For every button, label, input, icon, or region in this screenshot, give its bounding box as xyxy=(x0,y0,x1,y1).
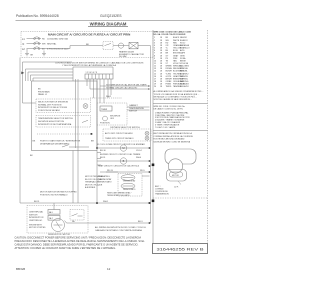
terminal strip wires down xyxy=(87,79,111,148)
svg-text:PANEL L1: PANEL L1 xyxy=(38,93,48,96)
svg-text:POSITION / MOTOR PARADO: POSITION / MOTOR PARADO xyxy=(40,193,68,196)
wire table row 10 xyxy=(154,59,187,62)
indicator lamp L2 xyxy=(145,131,149,135)
svg-text:BK-11: BK-11 xyxy=(34,201,40,203)
wire bundle 5 xyxy=(33,78,73,81)
wire L1 xyxy=(27,38,42,40)
svg-text:TN/RD: TN/RD xyxy=(166,86,172,88)
junction dot row xyxy=(91,133,93,135)
svg-text:SHOWN IN HIGH POSITION: SHOWN IN HIGH POSITION xyxy=(38,121,64,123)
switch contact in sub box xyxy=(72,214,83,216)
svg-text:DE ARRANQUE (MOMENTARY): DE ARRANQUE (MOMENTARY) xyxy=(40,142,70,145)
svg-text:6A 5: 6A 5 xyxy=(49,211,53,214)
svg-text:THERMOSTAT: THERMOSTAT xyxy=(123,180,137,183)
right column separator 2 xyxy=(153,130,208,132)
svg-text:20: 20 xyxy=(154,86,156,88)
wire row 4 xyxy=(20,202,150,204)
junction row1 left xyxy=(96,147,98,149)
terminal strip xyxy=(85,74,113,79)
svg-text:NEUTRAL: NEUTRAL xyxy=(47,43,57,46)
svg-text:NORMAL DRY POSITION: NORMAL DRY POSITION xyxy=(38,103,62,106)
switch contact S2 xyxy=(82,120,88,122)
svg-text:BLANCO: BLANCO xyxy=(180,39,188,42)
motor housing outline xyxy=(167,170,187,182)
svg-text:WH-2: WH-2 xyxy=(106,96,112,98)
right column left border xyxy=(152,30,154,243)
svg-text:CAFE: CAFE xyxy=(180,52,186,55)
heater element circle xyxy=(118,43,123,48)
right column right border xyxy=(207,30,209,243)
svg-text:1/2 P.: 1/2 P. xyxy=(174,186,179,188)
wire table row 18 xyxy=(154,80,189,83)
svg-text:A BORNES: A BORNES xyxy=(85,186,96,189)
junction row3b right xyxy=(149,171,151,173)
wire loop top xyxy=(23,62,73,103)
svg-text:SHOWN WITH: SHOWN WITH xyxy=(29,224,42,226)
svg-text:CAUTION: DISCONNECT POWER BEFO: CAUTION: DISCONNECT POWER BEFORE SERVICI… xyxy=(15,236,142,240)
svg-text:TAN: TAN xyxy=(173,59,177,62)
timer output wire 1 xyxy=(127,106,150,108)
console drop wire 1 xyxy=(72,151,74,204)
svg-text:BU-10: BU-10 xyxy=(100,150,107,152)
svg-text:POSITION: POSITION xyxy=(100,123,110,125)
svg-text:NARANJA: NARANJA xyxy=(180,44,190,47)
wire row 5 xyxy=(67,222,150,224)
svg-text:AZUL/BL: AZUL/BL xyxy=(180,70,188,73)
fuse F1 xyxy=(34,37,40,40)
wire table row 15 xyxy=(154,72,188,75)
svg-text:TERMOSTATO: TERMOSTATO xyxy=(98,181,112,184)
selector switch dashed box xyxy=(36,99,91,113)
motor dashed box xyxy=(27,206,88,234)
svg-text:B: B xyxy=(123,159,125,163)
temperature switch dashed box xyxy=(36,116,91,128)
svg-text:GY-14: GY-14 xyxy=(136,150,142,152)
svg-text:BB/GB: BB/GB xyxy=(16,267,25,271)
svg-text:BUZZER CIRCUIT / CIRCUITO DEL: BUZZER CIRCUIT / CIRCUITO DEL TIMBRE xyxy=(100,154,141,156)
wire table row 16 xyxy=(154,75,189,78)
wire into thermostat box xyxy=(100,171,118,173)
wire table row 1 xyxy=(154,36,187,39)
svg-text:MOTOR SWITCH SHOWN IN STOPPED: MOTOR SWITCH SHOWN IN STOPPED xyxy=(40,192,77,194)
wire row 2 xyxy=(97,160,150,162)
svg-text:GLEQ2152ES: GLEQ2152ES xyxy=(100,14,122,18)
svg-text:ALL WIRING SHOWN WITH DOOR CLO: ALL WIRING SHOWN WITH DOOR CLOSED / TODO… xyxy=(95,226,147,229)
wire bundle 2 xyxy=(26,69,74,81)
wire timer feed 1 xyxy=(100,85,148,87)
thermal limiter box xyxy=(103,42,113,50)
buzzer B1 xyxy=(120,158,126,164)
wire table row 11 xyxy=(154,62,189,65)
right column note 2 xyxy=(154,132,194,143)
svg-text:TERMINAL DEL: TERMINAL DEL xyxy=(85,181,100,184)
svg-text:FROM MAIN: FROM MAIN xyxy=(38,90,50,93)
svg-text:WH-4: WH-4 xyxy=(136,157,142,159)
svg-text:SONT DE CALIBRE 18 SAUF INDICA: SONT DE CALIBRE 18 SAUF INDICATION ... xyxy=(154,98,193,101)
console enclosure xyxy=(32,81,98,151)
svg-text:SELECTOR SWITCH SHOWN IN: SELECTOR SWITCH SHOWN IN xyxy=(38,102,69,104)
dryness switch dashed box xyxy=(103,129,151,141)
svg-text:TERMOSTATO: TERMOSTATO xyxy=(123,188,136,191)
fold mark 1 xyxy=(152,164,155,167)
svg-text:WH-1: WH-1 xyxy=(103,201,109,203)
cabinet top edge xyxy=(73,67,113,81)
svg-text:ATTENTION: COUPER LE COURANT A: ATTENTION: COUPER LE COURANT AVANT DE FA… xyxy=(15,246,117,250)
svg-text:18: 18 xyxy=(160,86,162,88)
svg-text:PUSH TO START SWITCH / INTERRU: PUSH TO START SWITCH / INTERRUPTOR xyxy=(40,140,81,143)
svg-text:WIRE CODE / CODIGO DE CABLE /: WIRE CODE / CODIGO DE CABLE / CODE xyxy=(154,31,192,34)
svg-text:ROSA: ROSA xyxy=(180,57,186,60)
thermostat dashed box xyxy=(118,174,142,197)
svg-text:BLACK: BLACK xyxy=(173,36,180,39)
svg-text:HEAT CIRCUIT / CIRCUITO DE CAL: HEAT CIRCUIT / CIRCUITO DE CALOR RD-6 xyxy=(98,164,140,167)
right column dashed separator xyxy=(153,197,208,199)
svg-text:IDLER AS SHOWN / COMO SE MUEST: IDLER AS SHOWN / COMO SE MUESTRA xyxy=(154,140,191,143)
timer motor circle xyxy=(103,116,108,121)
svg-text:MOTOR / PLAQUE: MOTOR / PLAQUE xyxy=(85,183,103,186)
svg-text:CENTRIFUGAL: CENTRIFUGAL xyxy=(29,211,44,214)
svg-text:INTERRUPTOR: INTERRUPTOR xyxy=(29,217,44,219)
fuse F2 xyxy=(34,42,40,45)
svg-text:ROSA/NG: ROSA/NG xyxy=(180,83,189,86)
wire table row 4 xyxy=(154,44,190,47)
wire table row 13 xyxy=(154,68,188,70)
svg-text:WIRING DIAGRAM: WIRING DIAGRAM xyxy=(90,22,127,27)
svg-text:M: M xyxy=(122,146,124,150)
svg-text:BLOCK / BLOQUE: BLOCK / BLOQUE xyxy=(85,179,102,181)
wire thermostat to bus xyxy=(142,175,150,177)
svg-text:12: 12 xyxy=(107,267,111,271)
svg-text:CABINET: CABINET xyxy=(129,104,138,107)
svg-text:ALL WIRES ARE 18 GA. UNLESS OT: ALL WIRES ARE 18 GA. UNLESS OTHERWISE NO… xyxy=(154,90,204,93)
wire row 1 xyxy=(97,147,150,149)
ground symbol 2 xyxy=(42,51,46,56)
start switch contact xyxy=(62,145,89,147)
svg-text:CORREA / INSTALLATION DE LA CO: CORREA / INSTALLATION DE LA COURROIE xyxy=(154,135,194,138)
svg-text:120/240VAC 60HZ 30A: 120/240VAC 60HZ 30A xyxy=(47,38,68,41)
svg-text:MAIN CIRCUIT A/ CIRCUITO DE FU: MAIN CIRCUIT A/ CIRCUITO DE FUERZA A/ CI… xyxy=(48,32,130,36)
svg-text:TRANSMISSION: TRANSMISSION xyxy=(155,193,169,196)
svg-text:DE CABLE / CODE DU No. DE FIL: DE CABLE / CODE DU No. DE FIL xyxy=(154,108,184,111)
junction row4 mid xyxy=(96,202,98,204)
motor switch sub box xyxy=(70,210,84,221)
motor contact box 1 xyxy=(48,210,60,215)
svg-text:1 2 3 4 5 6 7 8: 1 2 3 4 5 6 7 8 xyxy=(86,72,98,74)
svg-text:AUTO DRY CIRCUIT SECADO: AUTO DRY CIRCUIT SECADO xyxy=(105,132,133,135)
svg-text:MOTOR TERMINAL: MOTOR TERMINAL xyxy=(85,175,104,178)
wire table row 17 xyxy=(154,78,188,81)
svg-text:POSICION DE SECADO: POSICION DE SECADO xyxy=(38,109,61,112)
svg-text:TIMED DRY CIRCUIT SECADO: TIMED DRY CIRCUIT SECADO xyxy=(105,137,134,140)
main circuit enclosure xyxy=(21,32,153,58)
svg-text:TO HEAT CIRCUIT / AL CIRCUITO: TO HEAT CIRCUIT / AL CIRCUITO xyxy=(106,87,138,90)
wire bundle 3 xyxy=(28,72,73,81)
junction row5 right xyxy=(149,222,151,224)
header rule xyxy=(16,20,203,22)
svg-text:VIOLETA: VIOLETA xyxy=(180,62,189,65)
motor M1 xyxy=(52,219,65,232)
wire table row 9 xyxy=(154,57,186,60)
svg-text:Publication No. 5995444028: Publication No. 5995444028 xyxy=(16,14,59,18)
junction row3 right xyxy=(149,165,151,167)
svg-text:CAFE/BL: CAFE/BL xyxy=(180,78,188,81)
motor pulley oval xyxy=(170,172,183,177)
wire table row 20 xyxy=(154,85,189,88)
belt figure caption xyxy=(155,186,169,196)
svg-text:NO. GA. COLOR COLOR CO: NO. GA. COLOR COLOR COULEUR xyxy=(154,33,186,36)
console drop wire 2 xyxy=(96,151,98,204)
svg-text:BELT INSTALLATION / INSTALACIO: BELT INSTALLATION / INSTALACION DE LA xyxy=(154,132,193,135)
wire table row 3 xyxy=(154,42,186,44)
wire L2 run to heater xyxy=(41,46,103,49)
thermostat TH1 xyxy=(121,175,135,181)
svg-text:7 LIGHT / LUZ / LAMPE: 7 LIGHT / LUZ / LAMPE xyxy=(155,126,176,129)
part number box xyxy=(153,244,208,254)
thermostat TH2 xyxy=(121,183,135,189)
svg-text:MOTOR STOPPED: MOTOR STOPPED xyxy=(29,227,46,229)
timer output wire 2 xyxy=(127,109,150,111)
svg-text:INTERRUPTOR DE TEMPERATURA: INTERRUPTOR DE TEMPERATURA xyxy=(38,123,72,126)
wire N xyxy=(27,43,42,45)
svg-text:240 VAC: 240 VAC xyxy=(119,55,127,58)
wire console drop B xyxy=(77,79,79,203)
svg-text:1A 2: 1A 2 xyxy=(49,217,53,220)
svg-text:HIGH LIMIT THERMOSTAT /: HIGH LIMIT THERMOSTAT / xyxy=(107,191,132,194)
svg-text:CABLE ESTA DANADO, DEBE SER RE: CABLE ESTA DANADO, DEBE SER REEMPLAZADO … xyxy=(15,242,139,246)
page background xyxy=(0,0,218,285)
wire console drop A xyxy=(75,79,77,148)
junction row1 right xyxy=(149,147,151,149)
right column separator 1 xyxy=(153,103,208,105)
drum lamp M xyxy=(120,145,126,151)
wire table row 6 xyxy=(154,49,185,52)
wire timer feed 2 xyxy=(90,88,148,90)
svg-text:N: N xyxy=(23,43,25,46)
svg-text:SE INDIQUE LO CONTRARIO / TOUS: SE INDIQUE LO CONTRARIO / TOUS LES FILS … xyxy=(154,95,198,98)
svg-text:SHOWN IN: SHOWN IN xyxy=(110,115,121,117)
wire motor to row5 xyxy=(65,221,67,224)
wire heater to bus xyxy=(124,46,151,58)
right column note paragraph xyxy=(154,90,204,101)
junction arrow xyxy=(21,72,24,75)
wire drop to contacts xyxy=(53,203,55,210)
fold mark 2 xyxy=(152,200,155,203)
svg-text:CENTRIFUGO: CENTRIFUGO xyxy=(29,220,43,222)
indicator lamp L3 xyxy=(145,136,149,140)
wire left bus 1 xyxy=(19,58,21,204)
heater box xyxy=(129,42,138,48)
wire stub dashed xyxy=(90,97,122,99)
svg-text:MOTOR: MOTOR xyxy=(172,175,179,177)
wire table row 12 xyxy=(154,65,189,68)
right bus wire xyxy=(150,58,152,224)
svg-text:TEMPERATURE SELECTOR SWITCH: TEMPERATURE SELECTOR SWITCH xyxy=(38,117,73,120)
wire table row 2 xyxy=(154,39,188,42)
wire table row 19 xyxy=(154,83,189,86)
wire row 3 xyxy=(106,171,150,173)
fuse F3 xyxy=(34,47,40,50)
dashed link row xyxy=(37,133,90,135)
svg-text:CABLEADO MOSTRADO CON PUERTA C: CABLEADO MOSTRADO CON PUERTA CERRADA xyxy=(95,229,142,232)
svg-text:AZUL: AZUL xyxy=(180,49,185,52)
switch contact xyxy=(105,43,112,45)
timer contact box xyxy=(100,106,112,111)
svg-text:TIMER: TIMER xyxy=(101,109,108,111)
svg-text:SWITCH /: SWITCH / xyxy=(29,214,38,216)
belt drum outline xyxy=(165,149,196,164)
pointer line xyxy=(178,181,181,185)
svg-text:AMAR/RJ: AMAR/RJ xyxy=(180,72,188,75)
svg-text:TODOS LOS CABLES SON 18 GA. A: TODOS LOS CABLES SON 18 GA. A MENOS QUE … xyxy=(154,93,200,96)
svg-text:ROUTE BELT AROUND DRUM AND: ROUTE BELT AROUND DRUM AND xyxy=(154,138,186,141)
svg-text:BEIGE/RJ: BEIGE/RJ xyxy=(180,86,189,88)
svg-text:TO TIMER MOTOR / AL MOTOR DEL: TO TIMER MOTOR / AL MOTOR DEL TIMER xyxy=(106,83,147,86)
wire L2 xyxy=(27,48,42,50)
svg-text:PRECAUCION: DESCONECTE LA ENER: PRECAUCION: DESCONECTE LA ENERGIA ANTES … xyxy=(15,239,146,243)
indicator lamp L1 xyxy=(83,104,88,109)
junction row4 right xyxy=(149,202,151,204)
wire table row 14 xyxy=(154,70,188,73)
svg-text:INTERRUPTOR SELECTOR EN: INTERRUPTOR SELECTOR EN xyxy=(38,107,68,109)
right column legend list xyxy=(155,111,190,128)
wire table row 5 xyxy=(154,47,190,50)
wire bundle 4 xyxy=(31,75,74,81)
idler pulley circle xyxy=(168,159,182,173)
svg-text:SWITCH: SWITCH xyxy=(129,111,137,113)
wire to heater box xyxy=(113,45,118,47)
timer dashed box xyxy=(97,103,127,125)
svg-text:TEMPERATURE: TEMPERATURE xyxy=(129,107,145,110)
svg-text:316446255 REV B: 316446255 REV B xyxy=(157,248,205,252)
svg-text:AMARILLO: AMARILLO xyxy=(180,47,190,50)
svg-text:DRYNESS SELECTOR SWITCH: DRYNESS SELECTOR SWITCH xyxy=(110,127,140,129)
wire table row 7 xyxy=(154,52,186,55)
svg-text:TERMOSTATO DE LIMITE: TERMOSTATO DE LIMITE xyxy=(107,194,130,197)
right column legend title xyxy=(154,106,186,111)
wire table row 8 xyxy=(154,54,185,57)
junction row2 right xyxy=(149,160,151,162)
console drop stubs xyxy=(97,153,101,166)
ground symbol xyxy=(25,49,29,56)
motor contact box 2 xyxy=(48,216,60,221)
svg-text:WH: WH xyxy=(42,44,46,46)
